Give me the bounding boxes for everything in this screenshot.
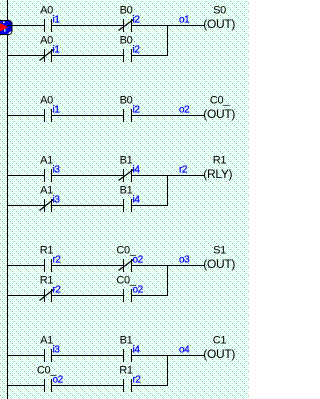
svg-text:i1: i1 — [53, 105, 61, 116]
svg-text:i2: i2 — [133, 15, 141, 26]
contact A1 / i3 (NO) rung 5 branch 1 — [40, 335, 60, 363]
svg-text:B0: B0 — [120, 95, 133, 107]
svg-text:r2: r2 — [133, 375, 142, 386]
wire rung 4 branch 1: between contacts — [52, 265, 123, 266]
contact B1 / i4 (NC) rung 3 branch 1 — [119, 155, 141, 183]
coil C1 / o4 (OUT) — [179, 335, 235, 362]
svg-text:(OUT): (OUT) — [203, 347, 235, 361]
svg-text:i1: i1 — [53, 45, 61, 56]
wire rung 4 branch 2: rail to first contact — [7, 295, 44, 296]
svg-text:o4: o4 — [179, 345, 190, 356]
wire rung 3 branch 2: second contact to branch junction — [132, 205, 168, 206]
contact B1 / i4 (NO) rung 5 branch 1 — [120, 335, 141, 363]
contact A1 / i3 (NC) rung 3 branch 2 — [40, 185, 61, 213]
coil C0_ / o2 (OUT) — [179, 95, 235, 122]
contact R1 / r2 (NO) rung 5 branch 2 — [119, 365, 141, 393]
svg-text:o2: o2 — [133, 255, 144, 266]
svg-text:S1: S1 — [213, 245, 226, 257]
svg-text:i2: i2 — [133, 45, 141, 56]
wire rung 4 branch 1: rail to first contact — [7, 265, 44, 266]
wire rung 1 branch 2: rail to first contact — [7, 55, 44, 56]
branch junction vertical rung 3 — [167, 175, 168, 206]
svg-text:R1: R1 — [40, 275, 54, 287]
wire rung 1 branch 2: second contact to branch junction — [132, 55, 168, 56]
coil R1 / r2 (RLY) — [179, 155, 233, 182]
wire rung 3 branch 1: between contacts — [52, 175, 123, 176]
svg-text:i2: i2 — [133, 105, 141, 116]
svg-text:A0: A0 — [40, 35, 53, 47]
coil S0 / o1 (OUT) — [179, 5, 235, 32]
svg-text:i1: i1 — [53, 15, 61, 26]
svg-text:(OUT): (OUT) — [203, 107, 235, 121]
svg-text:R1: R1 — [119, 365, 133, 377]
svg-text:R1: R1 — [40, 245, 54, 257]
contact B0 / i2 (NO) rung 2 — [120, 95, 141, 123]
wire rung 3 branch 2: rail to first contact — [7, 205, 44, 206]
branch junction vertical rung 1 — [167, 25, 168, 56]
wire rung 3 branch 1: second contact to coil — [132, 175, 205, 176]
svg-text:B0: B0 — [120, 5, 133, 17]
contact A0 / i1 (NC) rung 1 branch 2 — [40, 35, 61, 63]
left power rail — [7, 0, 8, 399]
svg-text:r2: r2 — [53, 255, 62, 266]
svg-text:o2: o2 — [133, 285, 144, 296]
contact R1 / r2 (NO) rung 4 branch 1 — [40, 245, 62, 273]
wire rung 1 branch 2: between contacts — [52, 55, 123, 56]
contact R1 / r2 (NC) rung 4 branch 2 — [40, 275, 62, 303]
svg-text:B0: B0 — [120, 35, 133, 47]
contact A1 / i3 (NO) rung 3 branch 1 — [40, 155, 60, 183]
svg-text:R1: R1 — [213, 155, 227, 167]
wire rung 5 branch 2: second contact to branch junction — [132, 385, 168, 386]
svg-text:i4: i4 — [133, 345, 141, 356]
coil S1 / o3 (OUT) — [179, 245, 235, 272]
wire rung 5 branch 1: second contact to coil — [132, 355, 205, 356]
svg-text:(OUT): (OUT) — [203, 257, 235, 271]
rung cursor icon — [0, 21, 12, 35]
svg-text:o1: o1 — [179, 15, 190, 26]
svg-text:i3: i3 — [53, 345, 61, 356]
wire rung 2: second contact to coil — [132, 115, 205, 116]
contact A0 / i1 (NO) rung 2 — [40, 95, 60, 123]
svg-text:o3: o3 — [179, 255, 190, 266]
svg-text:r2: r2 — [53, 285, 62, 296]
wire rung 1 branch 1: rail to first contact — [7, 25, 44, 26]
branch junction vertical rung 4 — [167, 265, 168, 296]
svg-text:i4: i4 — [133, 195, 141, 206]
svg-text:B1: B1 — [120, 335, 133, 347]
svg-text:C0_: C0_ — [210, 95, 230, 107]
svg-text:B1: B1 — [120, 155, 133, 167]
wire rung 4 branch 1: second contact to coil — [132, 265, 205, 266]
wire rung 5 branch 1: rail to first contact — [7, 355, 44, 356]
contact B1 / i4 (NO) rung 3 branch 2 — [120, 185, 141, 213]
wire rung 5 branch 2: rail to first contact — [7, 385, 44, 386]
branch junction vertical rung 5 — [167, 355, 168, 386]
contact B0 / i2 (NO) rung 1 branch 2 — [120, 35, 141, 63]
svg-text:A0: A0 — [40, 95, 53, 107]
wire rung 2: rail to first contact — [7, 115, 44, 116]
contact B0 / i2 (NC) rung 1 branch 1 — [119, 5, 141, 33]
svg-text:i3: i3 — [53, 195, 61, 206]
wire rung 4 branch 2: between contacts — [52, 295, 123, 296]
svg-text:C1: C1 — [213, 335, 227, 347]
svg-text:(OUT): (OUT) — [203, 17, 235, 31]
svg-text:r2: r2 — [179, 165, 188, 176]
svg-text:A1: A1 — [40, 155, 53, 167]
svg-text:o2: o2 — [179, 105, 190, 116]
wire rung 3 branch 2: between contacts — [52, 205, 123, 206]
wire rung 2: between contacts — [52, 115, 123, 116]
contact A0 / i1 (NO) rung 1 branch 1 — [40, 5, 60, 33]
svg-text:i4: i4 — [133, 165, 141, 176]
contact C0_ / o2 (NO) rung 4 branch 2 — [116, 275, 143, 303]
wire rung 3 branch 1: rail to first contact — [7, 175, 44, 176]
wire rung 1 branch 1: second contact to coil — [132, 25, 205, 26]
svg-text:A1: A1 — [40, 185, 53, 197]
svg-text:i3: i3 — [53, 165, 61, 176]
wire rung 1 branch 1: between contacts — [52, 25, 123, 26]
contact C0_ / o2 (NO) rung 5 branch 2 — [37, 365, 64, 393]
contact C0_ / o2 (NC) rung 4 branch 1 — [116, 245, 143, 273]
svg-text:A1: A1 — [40, 335, 53, 347]
wire rung 5 branch 2: between contacts — [52, 385, 123, 386]
wire rung 5 branch 1: between contacts — [52, 355, 123, 356]
wire rung 4 branch 2: second contact to branch junction — [132, 295, 168, 296]
svg-text:A0: A0 — [40, 5, 53, 17]
svg-text:S0: S0 — [213, 5, 226, 17]
svg-text:B1: B1 — [120, 185, 133, 197]
svg-text:(RLY): (RLY) — [203, 167, 232, 181]
svg-text:o2: o2 — [53, 375, 64, 386]
